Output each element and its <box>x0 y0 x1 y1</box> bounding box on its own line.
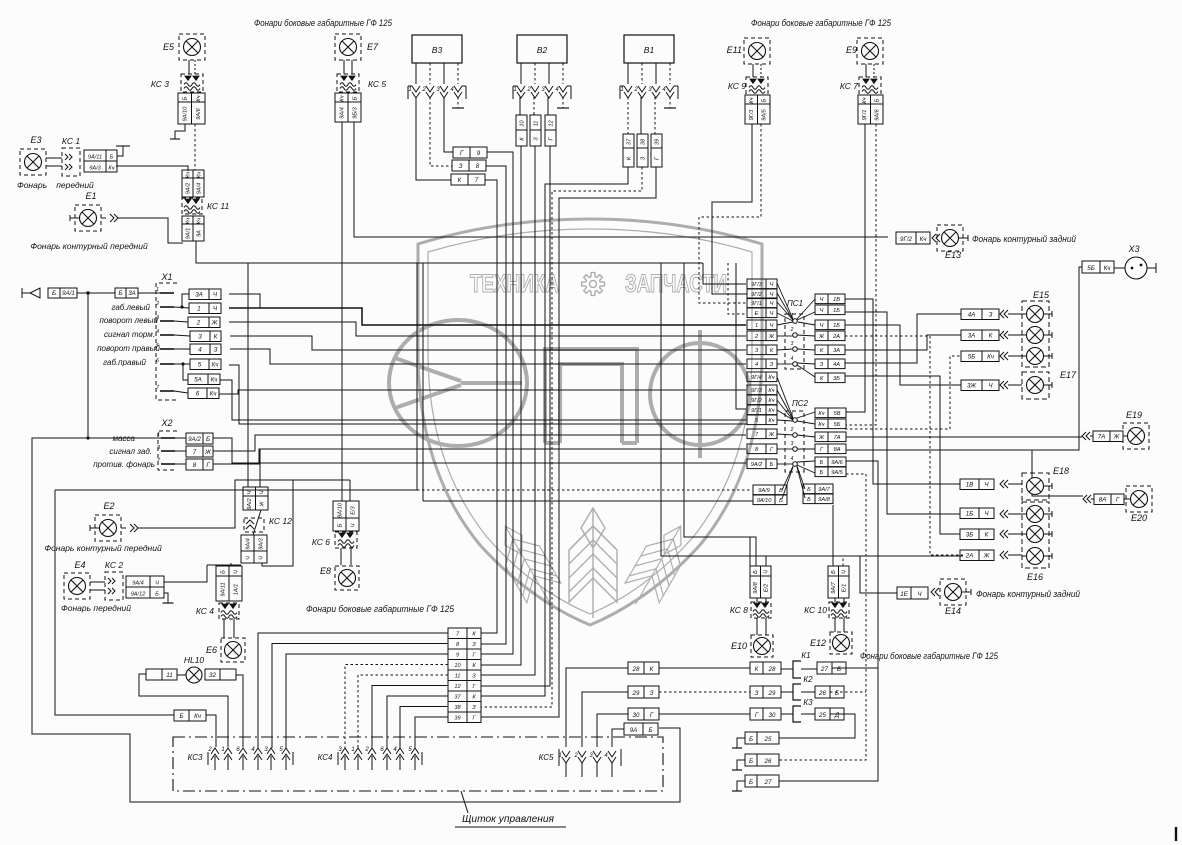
svg-text:8: 8 <box>476 163 480 170</box>
junction box Ж-7А right of PS2 <box>815 432 846 442</box>
junction box Z-29 <box>750 686 781 698</box>
svg-text:9А/4: 9А/4 <box>245 538 251 550</box>
svg-text:9Г/2: 9Г/2 <box>751 292 763 298</box>
lamp E20 <box>1126 486 1152 512</box>
svg-text:поворот левый: поворот левый <box>99 316 158 325</box>
svg-text:11: 11 <box>166 672 172 679</box>
svg-text:9А/6: 9А/6 <box>196 107 202 119</box>
svg-text:1В: 1В <box>966 482 974 489</box>
svg-text:1: 1 <box>156 287 159 293</box>
junction box KC2 <box>126 576 164 598</box>
svg-text:E18: E18 <box>1053 466 1069 476</box>
junction box 9Г/3-Ч left of PS <box>747 279 777 289</box>
PS1 contact wires <box>777 283 793 319</box>
svg-text:X1: X1 <box>160 272 172 282</box>
svg-text:Б: Б <box>52 290 56 297</box>
svg-text:2: 2 <box>633 87 638 93</box>
chevrons to lamp <box>1000 331 1008 339</box>
block В3 <box>412 35 462 63</box>
junction box 9Г/4-Кч left of PS <box>747 372 777 382</box>
svg-text:2: 2 <box>364 747 369 753</box>
svg-text:Кч: Кч <box>196 218 202 224</box>
lamp E16 element <box>1027 506 1044 523</box>
ground of В3 pin4 <box>457 97 459 108</box>
lamp E11 <box>744 38 770 64</box>
svg-text:30: 30 <box>769 712 776 719</box>
svg-text:Ж: Ж <box>818 334 825 340</box>
svg-text:9Г/3: 9Г/3 <box>749 109 755 121</box>
svg-text:Б: Б <box>875 98 881 102</box>
svg-text:4А: 4А <box>968 312 976 319</box>
svg-text:2А: 2А <box>965 553 974 560</box>
svg-text:37: 37 <box>454 695 461 701</box>
junction box 6-Kch <box>188 388 219 399</box>
watermark gear icon <box>582 273 605 296</box>
wire PS2 Zh-7A to E19 <box>846 436 1082 438</box>
junction box above KC11 <box>182 170 204 197</box>
wire KC8 to E10 <box>756 618 758 635</box>
svg-text:27: 27 <box>764 779 772 786</box>
wire dashed down from box <box>194 124 196 170</box>
lamp E4 front <box>64 573 90 599</box>
lamp E8 <box>335 566 359 590</box>
svg-text:З: З <box>755 690 759 697</box>
svg-text:КС3: КС3 <box>188 753 203 762</box>
wire PS2 G-8A to E20 <box>846 450 1083 496</box>
wire HL10 right to KC3 strip <box>236 675 243 747</box>
svg-text:К1: К1 <box>801 651 810 660</box>
svg-text:3Б: 3Б <box>833 376 840 382</box>
wire E7 to KC5 <box>343 60 345 74</box>
wire box Z-8 to strip row2 <box>481 166 506 644</box>
connector KC 2 <box>105 572 123 600</box>
svg-text:КС 2: КС 2 <box>105 560 123 570</box>
svg-text:8: 8 <box>193 462 197 469</box>
connector KC 4 <box>219 603 239 619</box>
svg-text:9А: 9А <box>630 727 638 734</box>
svg-text:9: 9 <box>477 150 481 157</box>
lamp E2 contour front <box>95 515 121 541</box>
wire B2 boxes to strip rows 4-6 <box>481 146 521 665</box>
junction box 9Г/1-Ч left of PS <box>747 298 777 308</box>
chevrons to lamp <box>1000 310 1008 318</box>
junction box 11-Z <box>530 115 541 146</box>
junction box below KC12 <box>241 535 267 563</box>
svg-text:1: 1 <box>157 432 160 438</box>
junction box 7A-Zh <box>1093 431 1123 442</box>
svg-text:Ж: Ж <box>204 449 211 456</box>
svg-text:З: З <box>472 674 476 680</box>
junction box 29-Z <box>628 686 659 698</box>
junction box Ч-1Б right of PS1 <box>815 320 845 330</box>
chevrons to E13 <box>932 234 940 242</box>
svg-text:5Б: 5Б <box>834 422 841 428</box>
svg-text:Ч: Ч <box>770 301 774 307</box>
svg-text:Фонарь контурный задний: Фонарь контурный задний <box>976 589 1080 599</box>
svg-text:8А: 8А <box>834 447 841 453</box>
wire PS1 Ch-1V to E18 <box>845 299 960 484</box>
wire B3 pin3 to box <box>444 97 453 152</box>
svg-text:Ч: Ч <box>350 523 356 527</box>
svg-text:28: 28 <box>768 666 776 673</box>
control panel dashed frame <box>173 737 663 791</box>
svg-text:Кч: Кч <box>212 362 220 369</box>
svg-text:39: 39 <box>654 139 660 145</box>
svg-text:12: 12 <box>454 684 461 690</box>
junction box 1-Ch <box>189 303 221 314</box>
svg-text:Кч: Кч <box>818 422 824 428</box>
junction box З-4А right of PS1 <box>815 359 845 369</box>
svg-text:Б: Б <box>352 96 358 100</box>
svg-text:Ч: Ч <box>245 556 251 560</box>
svg-text:Ч: Ч <box>233 570 239 574</box>
svg-text:2: 2 <box>155 301 159 307</box>
svg-text:Ч: Ч <box>770 323 774 329</box>
svg-text:1: 1 <box>197 306 200 313</box>
junction box 4-Z <box>190 344 221 355</box>
svg-text:4А: 4А <box>833 362 840 368</box>
svg-text:1Б: 1Б <box>966 511 973 518</box>
svg-text:38: 38 <box>640 138 646 145</box>
svg-text:КС 12: КС 12 <box>269 516 292 526</box>
junction box B-25 with ground <box>745 732 779 744</box>
junction box 3Zh-Ch <box>961 380 999 391</box>
junction box 1B-Ch <box>960 508 994 519</box>
svg-text:9А/11: 9А/11 <box>220 582 226 596</box>
junction box 38-Z <box>637 134 648 167</box>
svg-text:9Г/4: 9Г/4 <box>751 375 762 381</box>
junction box 4-З left of PS <box>747 359 777 369</box>
svg-text:КС 5: КС 5 <box>368 79 386 89</box>
svg-text:Ч: Ч <box>258 556 264 560</box>
junction box above KC4 <box>216 566 242 601</box>
svg-text:9А/6: 9А/6 <box>875 108 881 120</box>
connector KC 8 <box>751 602 771 618</box>
svg-text:КС 1: КС 1 <box>62 136 80 146</box>
svg-text:К: К <box>650 666 654 673</box>
wire E7 chain left leg down to KC6 <box>341 122 343 501</box>
svg-text:7А: 7А <box>834 435 841 441</box>
svg-text:Б: Б <box>206 436 210 443</box>
svg-text:сигнал зад.: сигнал зад. <box>109 447 152 456</box>
svg-text:Ж: Ж <box>768 334 775 340</box>
svg-text:3А: 3А <box>128 290 136 297</box>
svg-text:11: 11 <box>533 121 539 127</box>
wire X3 down to right lamps feed <box>1032 267 1082 450</box>
connector KC 9 <box>746 77 768 95</box>
svg-text:E2: E2 <box>103 501 114 511</box>
junction box Б-9А/5 right of PS2 <box>815 467 846 477</box>
wire box G-9 to strip row3 <box>481 152 513 654</box>
junction box Ч-1Б right of PS1 <box>815 305 845 315</box>
junction box Е-Ч left of PS <box>747 308 777 318</box>
svg-text:З: З <box>989 312 993 319</box>
svg-text:5: 5 <box>198 362 202 369</box>
svg-text:3А: 3А <box>195 292 203 299</box>
wires boxes to relay rows <box>659 667 750 669</box>
wire collector drop into KC6 box <box>349 480 351 501</box>
lamp E6 <box>221 638 245 662</box>
junction box 9Г/2-Кч left of PS <box>747 395 777 405</box>
svg-text:Фонари боковые габаритные ГФ 1: Фонари боковые габаритные ГФ 125 <box>254 18 393 29</box>
svg-text:Фонарь контурный передний: Фонарь контурный передний <box>44 543 162 553</box>
junction box Кч-5Б right of PS2 <box>815 419 846 429</box>
junction box К-3Б right of PS1 <box>815 373 845 383</box>
svg-text:E14: E14 <box>945 606 961 616</box>
svg-text:2: 2 <box>790 427 794 433</box>
svg-text:Б: Б <box>807 487 811 493</box>
svg-text:E16: E16 <box>1027 572 1043 582</box>
svg-text:Ч: Ч <box>842 570 848 574</box>
wire K3 loop to B-25 <box>779 714 855 738</box>
connector KC 5 <box>337 74 359 92</box>
wire run 2-Zh to PS1 <box>229 322 746 336</box>
wire E9 to KC7 <box>865 64 867 77</box>
pin 1 of X1 <box>160 292 174 294</box>
wire signal zad run to PS2 <box>213 435 746 451</box>
svg-text:8А: 8А <box>1099 497 1107 504</box>
wire riser to E12 E16 run <box>661 263 963 556</box>
svg-text:E6: E6 <box>206 645 217 655</box>
svg-text:25: 25 <box>764 736 772 743</box>
svg-text:5А: 5А <box>194 377 202 384</box>
junction box G-9 <box>453 147 487 158</box>
svg-text:9А: 9А <box>196 230 202 237</box>
wire protiv fonar run to PS2 <box>213 449 746 464</box>
svg-text:Кч: Кч <box>185 218 191 224</box>
svg-text:9А/1: 9А/1 <box>62 290 75 297</box>
svg-text:Б: Б <box>762 98 768 102</box>
svg-text:9Г/1: 9Г/1 <box>862 110 868 121</box>
svg-text:1Б: 1Б <box>833 308 840 314</box>
svg-text:1Е: 1Е <box>900 591 908 598</box>
svg-text:9Г/3: 9Г/3 <box>751 282 763 288</box>
svg-text:Кч: Кч <box>749 97 755 103</box>
svg-text:9А/2: 9А/2 <box>751 462 763 468</box>
svg-text:E3: E3 <box>30 135 41 145</box>
junction box 12-G <box>545 115 556 146</box>
svg-text:Кч: Кч <box>862 97 868 103</box>
svg-text:Б: Б <box>837 666 841 673</box>
svg-text:Кч: Кч <box>108 166 114 172</box>
svg-text:Кч: Кч <box>768 398 774 404</box>
svg-text:против. фонарь: против. фонарь <box>93 460 155 469</box>
wire box to X1 pin1 <box>138 292 160 294</box>
svg-text:3А: 3А <box>833 348 840 354</box>
svg-text:К3: К3 <box>803 698 813 707</box>
wire E2 to collector 480 <box>138 480 350 528</box>
wire E4 to KC2 <box>90 581 105 583</box>
svg-text:В3: В3 <box>432 45 443 55</box>
junction strip boxes <box>448 628 481 639</box>
wire E7 chain right leg to E13 run <box>354 122 888 237</box>
wire KC12 lower box to collector <box>262 480 293 566</box>
junction box 3B-K <box>960 529 994 540</box>
svg-text:5Б: 5Б <box>968 354 975 361</box>
watermark EPF letters <box>389 320 750 458</box>
wire K1 loop to B-27 <box>832 667 878 669</box>
svg-text:З: З <box>472 642 476 648</box>
svg-text:Ч: Ч <box>770 282 774 288</box>
wire 30-G to KC5 arrow3 <box>597 714 628 747</box>
svg-text:Ж: Ж <box>211 320 218 327</box>
svg-text:37: 37 <box>626 138 632 145</box>
svg-text:Б: Б <box>220 570 226 574</box>
svg-text:26: 26 <box>818 690 826 697</box>
wire X3 box to lamp <box>1114 267 1125 269</box>
svg-text:HL10: HL10 <box>184 655 205 665</box>
junction box 9A/2-B <box>186 433 213 444</box>
svg-text:E9: E9 <box>846 45 857 55</box>
svg-text:Б: Б <box>183 96 189 100</box>
svg-text:3: 3 <box>791 441 794 447</box>
junction box B-9A/8 <box>803 494 833 504</box>
svg-text:1: 1 <box>221 747 224 753</box>
junction box Ч-1В right of PS1 <box>815 294 845 304</box>
lamp E3 front <box>20 149 46 175</box>
svg-text:Ч: Ч <box>820 323 824 329</box>
lamp E13 rear contour <box>937 225 963 251</box>
svg-text:Б: Б <box>749 758 753 765</box>
connector row under В3 <box>407 86 409 99</box>
svg-text:11: 11 <box>455 674 461 680</box>
svg-text:Е/2: Е/2 <box>764 583 770 592</box>
connector KC 10 <box>829 602 849 618</box>
wire PS1 Ch-1B2 to E17 <box>845 325 961 385</box>
svg-text:К2: К2 <box>803 675 813 684</box>
pin 7 of X2 <box>161 463 175 465</box>
svg-text:Ж: Ж <box>260 501 266 508</box>
connector KC 1 <box>62 148 80 176</box>
junction box 3-К left of PS <box>747 345 777 355</box>
pin 2 of X1 <box>160 306 174 308</box>
svg-text:КС 10: КС 10 <box>804 605 827 615</box>
junction box 5-Кч left of PS <box>747 415 777 425</box>
connector KC 12 <box>244 518 264 532</box>
svg-text:Кч: Кч <box>185 172 191 178</box>
junction box 2-Ж left of PS <box>747 331 777 341</box>
connector KC 11 <box>182 198 202 214</box>
junction box G-30 <box>750 708 781 720</box>
svg-text:E17: E17 <box>1060 370 1077 380</box>
wire E11 chain left-down to PS1 left boxes <box>712 124 752 294</box>
svg-text:КС 11: КС 11 <box>207 201 230 211</box>
svg-text:9А/5: 9А/5 <box>762 108 768 120</box>
svg-text:К: К <box>989 333 993 340</box>
wire B1 box37 to strip row7 <box>481 167 628 696</box>
svg-text:Б: Б <box>749 779 753 786</box>
svg-text:Б: Б <box>753 570 759 574</box>
svg-text:9Г/1: 9Г/1 <box>751 301 762 307</box>
svg-text:9: 9 <box>456 653 459 659</box>
svg-text:E15: E15 <box>1033 290 1050 300</box>
junction box B-27 with ground <box>745 775 779 787</box>
svg-text:9А/4: 9А/4 <box>196 183 202 195</box>
svg-text:З: З <box>214 347 218 354</box>
wires into KC12 box from above <box>247 263 249 487</box>
wire run 3A short <box>229 294 260 308</box>
svg-text:7: 7 <box>193 449 197 456</box>
junction box K-28 <box>750 662 781 674</box>
svg-text:9Г/3: 9Г/3 <box>751 388 763 394</box>
wire KC1 to E5 chain <box>116 166 188 171</box>
svg-text:КС 3: КС 3 <box>151 79 169 89</box>
junction box 9Г/1-Кч left of PS <box>747 405 777 415</box>
svg-text:9А/2: 9А/2 <box>185 182 191 194</box>
svg-text:Кч: Кч <box>211 377 219 384</box>
T-bar wire above KC4 box <box>207 564 241 566</box>
svg-text:9А/3: 9А/3 <box>258 537 264 549</box>
chevrons to E16 <box>1000 510 1008 518</box>
svg-text:9А/10: 9А/10 <box>183 106 189 122</box>
junction box 8-G <box>186 459 213 470</box>
wire KC2 top row to T bar <box>164 565 207 582</box>
chevrons to lamp <box>1000 352 1008 360</box>
junction box 9А/2-Б left of PS <box>747 459 777 469</box>
svg-text:Кч: Кч <box>768 418 774 424</box>
svg-text:7А: 7А <box>1098 434 1106 441</box>
svg-text:КС4: КС4 <box>318 753 333 762</box>
svg-text:З: З <box>472 705 476 711</box>
svg-text:9А/10: 9А/10 <box>757 498 773 504</box>
svg-text:Б: Б <box>118 290 122 297</box>
pin 6 of X1 <box>160 363 174 365</box>
wire E5 to KC3 <box>188 60 190 74</box>
junction box 5B-Kch <box>961 351 999 362</box>
svg-text:З: З <box>820 362 824 368</box>
junction box 7-Zh <box>186 446 213 457</box>
svg-text:29: 29 <box>632 690 640 697</box>
junction box К-3А right of PS1 <box>815 345 845 355</box>
wire E3 to KC1 <box>46 157 62 159</box>
svg-text:38: 38 <box>454 705 461 711</box>
wire massa to left edge <box>32 438 680 802</box>
svg-text:габ.правый: габ.правый <box>103 358 146 367</box>
svg-text:E10: E10 <box>731 641 747 651</box>
lamp E15 element <box>1027 327 1044 344</box>
svg-text:9А/4: 9А/4 <box>132 581 144 587</box>
svg-text:В2: В2 <box>537 45 548 55</box>
junction box 9A/10-B <box>753 495 787 505</box>
junction box 8-Г left of PS <box>747 444 777 454</box>
svg-text:В1: В1 <box>644 45 655 55</box>
pin 3 of X1 <box>160 320 174 322</box>
junction box 3A-Ch <box>189 289 221 300</box>
svg-text:1: 1 <box>755 323 758 329</box>
svg-text:9А/7: 9А/7 <box>831 581 837 593</box>
watermark wheat ears <box>488 508 697 618</box>
svg-text:E1: E1 <box>85 191 96 201</box>
junction box 26-B <box>815 686 844 698</box>
svg-text:3А: 3А <box>968 333 976 340</box>
wire PS1 K-3B to E16 lamp2 <box>845 376 960 534</box>
ground of В2 pin4 <box>562 97 564 108</box>
svg-text:ПС2: ПС2 <box>792 399 809 408</box>
wire riser to E10 <box>684 263 750 566</box>
wire run 6-Kch to PS1 <box>219 390 746 394</box>
svg-text:Б: Б <box>648 727 652 734</box>
svg-text:Кч: Кч <box>339 95 345 101</box>
svg-text:10: 10 <box>454 663 461 669</box>
junction box 3-K <box>190 331 221 342</box>
svg-text:Кч: Кч <box>196 95 202 101</box>
junction box below KC7 <box>858 95 883 124</box>
wire E11 to KC9 <box>752 64 754 77</box>
pin 1 of X2 <box>161 437 175 439</box>
wire PS1 K-3A to E15 lamp2 <box>845 335 961 350</box>
svg-text:2А: 2А <box>832 334 840 340</box>
junction box 37-K <box>623 134 634 167</box>
